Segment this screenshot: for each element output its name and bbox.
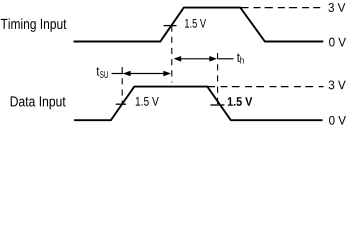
label Timing Input <box>1 18 67 32</box>
level label 3 V timing <box>328 3 345 12</box>
value label 1.5 V at data rising edge <box>136 97 159 106</box>
tSU setup-time double arrow <box>123 71 171 77</box>
timing input 3 V dashed level line <box>240 7 320 9</box>
dashed vertical reference line at data rise crossing <box>121 67 123 105</box>
data input 3 V dashed level line <box>207 86 323 88</box>
label Data Input <box>11 96 66 109</box>
timing input waveform <box>74 8 324 42</box>
label th (hold time) <box>237 53 244 63</box>
1.5 V tick on timing rising edge <box>164 25 177 27</box>
data input waveform <box>74 87 322 121</box>
level label 0 V data <box>329 116 346 125</box>
value label 1.5 V at timing rising edge <box>185 19 206 28</box>
th leader wire <box>218 58 233 60</box>
dashed vertical reference line at timing rise crossing <box>171 26 173 83</box>
tSU leader wire <box>112 73 124 75</box>
1.5 V tick on data falling edge <box>210 104 224 106</box>
th hold-time double arrow <box>174 56 217 62</box>
level label 0 V timing <box>329 38 346 47</box>
1.5 V tick on data rising edge <box>116 103 126 105</box>
label tSU (setup time) <box>96 67 107 78</box>
value label 1.5 V at data falling edge (bold) <box>228 97 253 106</box>
level label 3 V data <box>329 80 346 89</box>
dashed vertical reference line at data fall crossing <box>217 53 219 105</box>
